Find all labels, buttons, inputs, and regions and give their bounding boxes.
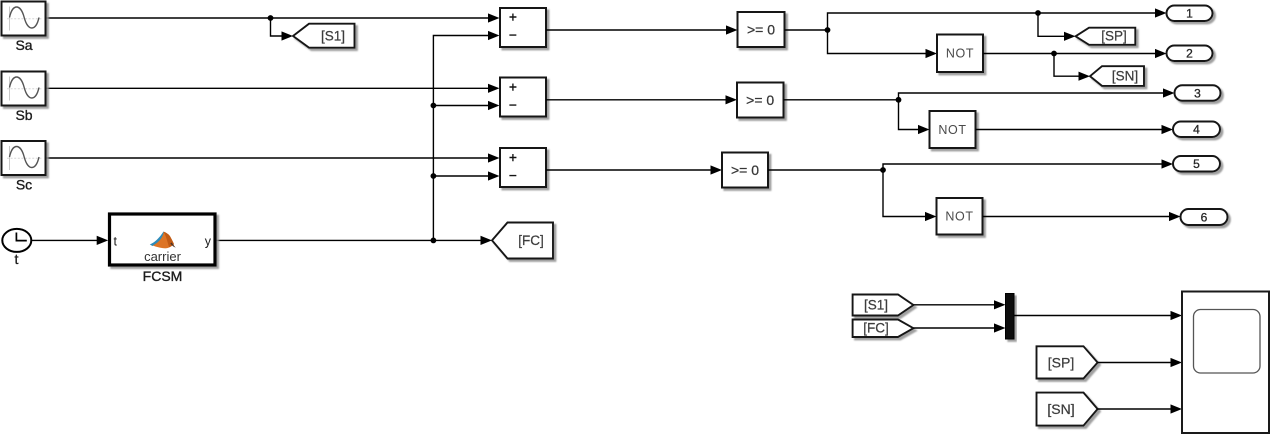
svg-text:4: 4 bbox=[1193, 123, 1200, 137]
svg-text:>= 0: >= 0 bbox=[747, 22, 775, 38]
wire Sum3 to Relational3 bbox=[546, 165, 722, 174]
svg-text:FCSM: FCSM bbox=[143, 268, 183, 284]
svg-text:[S1]: [S1] bbox=[864, 297, 888, 312]
wire NOT1 output to Out2 bbox=[983, 49, 1167, 58]
Goto tag [SP] bbox=[1076, 28, 1136, 45]
wire Sa to Sum1 plus input bbox=[46, 13, 500, 22]
svg-text:t: t bbox=[114, 234, 118, 248]
svg-text:[S1]: [S1] bbox=[321, 29, 345, 44]
output port 6 bbox=[1181, 209, 1228, 225]
svg-text:y: y bbox=[205, 234, 212, 248]
sine wave source Sc bbox=[2, 141, 46, 193]
svg-text:Sc: Sc bbox=[16, 177, 32, 193]
sum block Sum3 (+ -) bbox=[500, 148, 546, 187]
svg-text:Sb: Sb bbox=[15, 107, 32, 123]
MATLAB Function block FCSM (carrier) bbox=[110, 214, 216, 284]
Goto tag [FC] bbox=[492, 223, 553, 259]
svg-text:Sa: Sa bbox=[15, 37, 32, 53]
svg-text:>= 0: >= 0 bbox=[731, 162, 759, 178]
output port 2 bbox=[1167, 46, 1213, 62]
output port 5 bbox=[1173, 156, 1220, 172]
output port 1 bbox=[1167, 6, 1213, 22]
junction node on Sa wire bbox=[268, 15, 274, 21]
relational operator block Relational1 (>= 0) bbox=[738, 12, 785, 47]
svg-text:1: 1 bbox=[1186, 7, 1193, 21]
logical operator block NOT1 bbox=[937, 35, 983, 73]
svg-text:NOT: NOT bbox=[938, 123, 966, 137]
junction node carrier bus bbox=[431, 238, 437, 244]
Goto tag [SN] bbox=[1090, 66, 1144, 86]
From tag [S1] bbox=[853, 295, 914, 316]
svg-text:3: 3 bbox=[1194, 86, 1201, 100]
From tag [SP] bbox=[1037, 346, 1098, 378]
svg-text:−: − bbox=[509, 98, 517, 113]
svg-text:[FC]: [FC] bbox=[863, 321, 889, 336]
sum block Sum2 (+ -) bbox=[500, 78, 546, 117]
junction node carrier to Sum2 bbox=[431, 103, 437, 109]
sum block Sum1 (+ -) bbox=[500, 8, 546, 47]
wire junction A1 down to NOT1 bbox=[828, 30, 938, 58]
wire Relational1 output to junction bbox=[785, 29, 828, 31]
junction node A3 bbox=[880, 167, 886, 173]
logical operator block NOT2 bbox=[930, 111, 976, 148]
svg-text:2: 2 bbox=[1186, 47, 1193, 61]
wire Sb to Sum2 plus input bbox=[46, 84, 500, 93]
relational operator block Relational2 (>= 0) bbox=[737, 83, 784, 118]
svg-text:+: + bbox=[509, 10, 517, 25]
wire Relational3 output to junction bbox=[768, 169, 883, 171]
svg-text:>= 0: >= 0 bbox=[746, 92, 774, 108]
wire junction A3 down to NOT3 bbox=[883, 170, 937, 221]
junction node carrier to Sum3 bbox=[431, 173, 437, 179]
scope block bbox=[1182, 292, 1269, 434]
svg-text:carrier: carrier bbox=[144, 249, 182, 264]
svg-text:t: t bbox=[15, 251, 19, 267]
wire From [S1] to Mux bbox=[913, 300, 1005, 309]
relational operator block Relational3 (>= 0) bbox=[722, 153, 768, 188]
wire carrier to Sum2 minus input bbox=[433, 101, 499, 110]
wire Clock to FCSM input bbox=[32, 236, 108, 245]
wire branch from Sa junction to Goto [S1] bbox=[271, 18, 294, 41]
wire Sum1 to Relational1 bbox=[546, 25, 738, 34]
wire junction A2 up to Out3 bbox=[899, 88, 1175, 99]
wire junction A1 up to Out1 bbox=[828, 8, 1167, 30]
mux block bbox=[1006, 294, 1015, 340]
wire From [FC] to Mux bbox=[913, 323, 1005, 332]
svg-text:[SP]: [SP] bbox=[1101, 29, 1127, 44]
wire carrier to Sum3 minus input bbox=[433, 171, 499, 180]
wire From [SP] to Scope input 2 bbox=[1098, 358, 1182, 367]
svg-text:−: − bbox=[509, 28, 517, 43]
junction node A1 bbox=[825, 27, 831, 33]
clock source t bbox=[2, 229, 31, 267]
svg-text:[SN]: [SN] bbox=[1112, 69, 1138, 84]
wire NOT2 output to Out4 bbox=[976, 125, 1174, 134]
wire FCSM output to Goto [FC] bbox=[217, 236, 493, 245]
junction node B1 on Out1 wire bbox=[1035, 10, 1041, 16]
wire From [SN] to Scope input 3 bbox=[1098, 404, 1182, 413]
svg-text:[FC]: [FC] bbox=[518, 233, 544, 248]
wire Sc to Sum3 plus input bbox=[46, 153, 500, 162]
MATLAB logo inside FCSM bbox=[150, 232, 176, 249]
sine wave source Sa bbox=[2, 2, 46, 54]
svg-text:5: 5 bbox=[1193, 157, 1200, 171]
wire junction A2 down to NOT2 bbox=[899, 100, 930, 134]
From tag [FC] bbox=[853, 320, 914, 338]
output port 4 bbox=[1173, 122, 1220, 138]
Goto tag [S1] bbox=[293, 24, 355, 48]
junction node C1 on Out2 wire bbox=[1051, 51, 1057, 57]
svg-text:[SP]: [SP] bbox=[1048, 355, 1074, 371]
svg-text:+: + bbox=[509, 80, 517, 95]
wire branch to Goto [SN] bbox=[1054, 54, 1090, 81]
svg-text:6: 6 bbox=[1201, 210, 1208, 224]
wire NOT3 output to Out6 bbox=[983, 212, 1181, 221]
junction node A2 bbox=[896, 97, 902, 103]
wire Relational2 output to junction bbox=[784, 99, 899, 101]
sine wave source Sb bbox=[2, 72, 46, 124]
wire carrier vertical bus bbox=[433, 36, 488, 241]
svg-text:−: − bbox=[509, 168, 517, 183]
svg-text:[SN]: [SN] bbox=[1047, 401, 1074, 417]
output port 3 bbox=[1175, 85, 1221, 101]
wire Sum2 to Relational2 bbox=[546, 95, 737, 104]
wire branch to Goto [SP] bbox=[1038, 13, 1076, 41]
wire junction A3 up to Out5 bbox=[883, 159, 1173, 170]
svg-text:+: + bbox=[509, 150, 517, 165]
wire Mux to Scope input 1 bbox=[1014, 311, 1182, 320]
svg-text:NOT: NOT bbox=[945, 210, 973, 224]
From tag [SN] bbox=[1037, 393, 1098, 426]
wire carrier to Sum1 minus input arrowhead bbox=[488, 31, 500, 40]
logical operator block NOT3 bbox=[937, 198, 983, 235]
svg-text:NOT: NOT bbox=[946, 47, 974, 61]
